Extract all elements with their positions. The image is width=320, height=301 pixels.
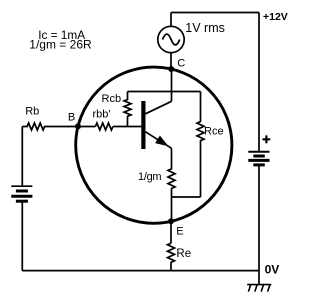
wire AC source to node C bbox=[170, 53, 172, 69]
chassis ground bbox=[247, 285, 271, 292]
battery B2 plus sign bbox=[263, 135, 271, 143]
svg-text:Rcb: Rcb bbox=[102, 93, 122, 105]
resistor 1/gm bbox=[168, 148, 175, 220]
svg-text:+12V: +12V bbox=[263, 11, 288, 23]
node B junction dot bbox=[75, 123, 81, 129]
transistor Q1 emitter arrow bbox=[155, 136, 168, 147]
node E junction dot bbox=[168, 218, 174, 224]
transistor Q1 base bar bbox=[141, 101, 145, 149]
resistor Rcb bbox=[124, 92, 131, 127]
wire bottom rail bbox=[22, 270, 259, 272]
wire left rail upper bbox=[21, 127, 23, 186]
resistor Rce bbox=[197, 92, 204, 198]
wire right rail lower bbox=[258, 166, 260, 284]
svg-text:Rb: Rb bbox=[25, 106, 39, 118]
battery B2 (supply battery, right) bbox=[248, 152, 269, 165]
svg-text:0V: 0V bbox=[265, 263, 280, 277]
wire right rail upper bbox=[258, 13, 260, 152]
battery B1 (left bias battery) bbox=[11, 186, 32, 201]
hybrid-pi model boundary circle bbox=[76, 67, 232, 223]
wire base lead bbox=[77, 126, 142, 128]
wire node C to collector junction bbox=[171, 68, 173, 101]
svg-text:rbb': rbb' bbox=[93, 109, 111, 121]
node C junction dot bbox=[168, 66, 174, 72]
resistor rbb' bbox=[95, 123, 113, 130]
wire emitter bottom link to Rce bbox=[172, 196, 201, 198]
resistor Re bbox=[168, 243, 175, 270]
wire AC source top stub bbox=[170, 13, 172, 27]
wire node E to Re bbox=[170, 220, 172, 243]
svg-text:Re: Re bbox=[176, 248, 191, 260]
svg-text:E: E bbox=[176, 226, 183, 238]
transistor Q1 emitter lead bbox=[146, 132, 172, 149]
svg-text:B: B bbox=[68, 112, 75, 124]
svg-text:C: C bbox=[177, 58, 185, 70]
resistor Rb bbox=[22, 123, 77, 130]
wire Rcb-Rce top link bbox=[128, 91, 201, 93]
svg-text:1V rms: 1V rms bbox=[185, 21, 225, 35]
AC source sine wave bbox=[163, 34, 180, 45]
svg-text:Rce: Rce bbox=[204, 126, 224, 138]
wire top rail bbox=[171, 12, 259, 14]
wire left rail lower bbox=[21, 202, 23, 271]
svg-text:1/gm: 1/gm bbox=[138, 171, 161, 183]
svg-text:1/gm = 26R: 1/gm = 26R bbox=[29, 37, 92, 51]
AC source V1 circle bbox=[158, 26, 184, 52]
transistor Q1 collector lead bbox=[146, 101, 172, 114]
